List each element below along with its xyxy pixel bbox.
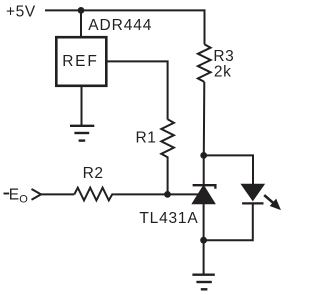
input chevron — [32, 189, 42, 200]
shunt regulator TL431A cathode bar — [193, 185, 216, 189]
wire node C to TL431 cathode — [203, 155, 205, 185]
node D (anode node) — [200, 237, 207, 244]
LED D1 triangle — [241, 184, 264, 200]
wire TL431 anode to node D — [203, 204, 205, 240]
resistor R1 — [161, 119, 174, 159]
svg-text:R3: R3 — [213, 48, 234, 65]
resistor R3 — [198, 44, 211, 82]
node A (+5V junction) — [78, 7, 85, 14]
wire R2 to TL431 reference — [114, 193, 199, 195]
resistor R2 — [74, 188, 114, 201]
wire input to R2 — [41, 193, 74, 195]
shunt regulator TL431A anode triangle — [192, 186, 215, 204]
svg-text:+5V: +5V — [6, 4, 36, 21]
svg-text:REF: REF — [62, 53, 98, 70]
svg-text:ADR444: ADR444 — [88, 17, 152, 34]
svg-text:O: O — [19, 193, 28, 205]
wire LED cathode to node D — [204, 203, 253, 240]
node C (cathode node) — [200, 152, 207, 159]
LED D1 cathode bar — [242, 202, 263, 204]
wire +5V rail — [45, 9, 206, 11]
svg-text:R1: R1 — [136, 130, 157, 147]
svg-text:TL431A: TL431A — [139, 210, 198, 227]
node B (R1/R2 junction) — [164, 191, 171, 198]
wire R3 to node C — [203, 82, 206, 155]
voltage reference REF box (ADR444) — [56, 37, 106, 86]
ground (under REF) — [70, 126, 94, 141]
wire node C to LED branch — [204, 155, 253, 184]
svg-text:2k: 2k — [214, 64, 232, 81]
wire REF bottom to ground — [81, 86, 83, 126]
wire +5V rail corner down to R3 — [204, 9, 206, 44]
input label -Eo minus sign — [4, 193, 10, 195]
ground (output) — [192, 275, 214, 290]
wire node A to REF box — [80, 10, 82, 38]
LED emission arrow — [264, 195, 279, 209]
svg-text:R2: R2 — [83, 165, 104, 182]
wire REF output to R1 — [106, 61, 167, 119]
wire R1 to node B — [167, 160, 169, 195]
wire node D to ground — [203, 240, 205, 274]
svg-text:E: E — [9, 187, 20, 204]
